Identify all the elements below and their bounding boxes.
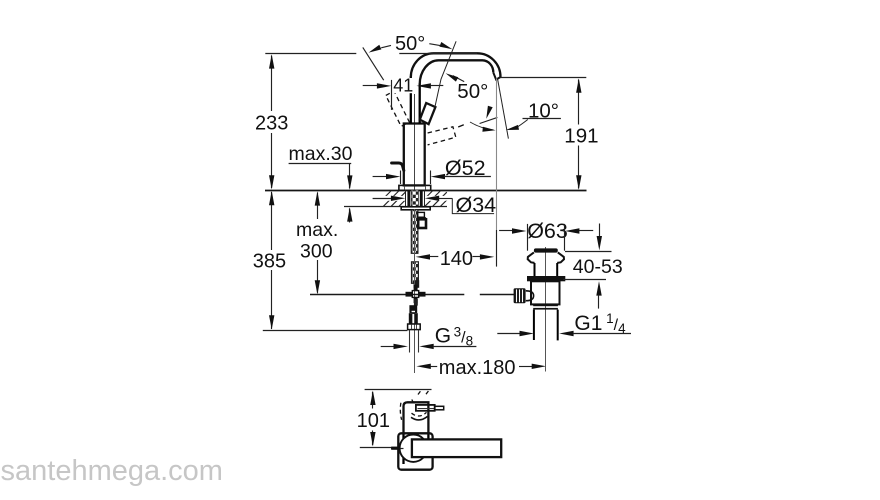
10deg leader and arrow bbox=[506, 120, 528, 131]
140 right extension line (spout axis) bbox=[496, 230, 498, 267]
svg-text:40-53: 40-53 bbox=[573, 256, 623, 278]
svg-text:Ø63: Ø63 bbox=[527, 219, 568, 243]
svg-text:385: 385 bbox=[253, 251, 286, 273]
41 left extension line bbox=[391, 80, 393, 110]
top view: dashed handle arcs bbox=[400, 390, 429, 420]
faucet centreline below deck bbox=[414, 209, 416, 373]
dimension 101 vertical line and arrows bbox=[370, 391, 375, 447]
svg-text:Ø34: Ø34 bbox=[456, 193, 497, 217]
dimension diameter 34 arrows and bent leader bbox=[373, 196, 495, 214]
svg-text:max.: max. bbox=[296, 219, 338, 241]
top view: lever handle bar bbox=[416, 405, 444, 411]
drain centreline bbox=[545, 247, 547, 372]
top view: solid arc across body bbox=[411, 416, 428, 420]
deck line (countertop) y=190.2 bbox=[265, 190, 587, 192]
top view: body outline bbox=[404, 402, 429, 433]
shank clamp bars (black) bbox=[407, 190, 410, 207]
drain rubber washer (black band) bbox=[527, 276, 565, 281]
horizontal pop-up rod bbox=[310, 294, 514, 296]
drain nut bands bbox=[533, 304, 558, 306]
rod stub above connector bbox=[414, 299, 418, 306]
dimension diameter 52 arrows and leader bbox=[373, 174, 491, 179]
svg-text:191: 191 bbox=[564, 124, 598, 147]
braided hose lower segment bbox=[412, 262, 419, 284]
faucet base flange on deck bbox=[399, 185, 431, 190]
svg-text:101: 101 bbox=[357, 410, 390, 432]
drain adjuster knob (knurled) bbox=[514, 288, 534, 303]
dimension G3/8 arrows bbox=[381, 344, 477, 349]
spout tube outer curve and top bbox=[411, 53, 501, 77]
50deg top right leader and arrow bbox=[429, 42, 452, 49]
drain flange cone bbox=[528, 252, 535, 263]
top view: body sides lower bbox=[404, 433, 429, 464]
50-degree label underline / spout top leader bbox=[399, 53, 477, 55]
svg-text:Ø52: Ø52 bbox=[445, 156, 486, 180]
10deg underline bbox=[523, 118, 561, 120]
top view: base plate bbox=[398, 433, 432, 469]
50deg2 leader from text to arrow bbox=[446, 73, 465, 81]
spout riser inner wall right bbox=[419, 84, 421, 124]
extension ticks for diameter 52 bbox=[401, 171, 431, 185]
drain tailpipe bbox=[534, 310, 558, 341]
dimension 40-53 lower part bbox=[563, 280, 606, 309]
top view: pop-up rod bbox=[391, 447, 404, 450]
supply pipe walls bbox=[410, 330, 419, 353]
drain plug cap (black) bbox=[534, 248, 558, 252]
spout axis extension line (gray) bbox=[496, 78, 498, 230]
lever handle (solid, closed position) bbox=[420, 103, 436, 124]
dimension max.300 (hose length below deck) bbox=[315, 191, 320, 294]
water stream line at 10 degrees bbox=[497, 78, 508, 139]
dimension G1-1/4 arrows bbox=[497, 331, 631, 336]
svg-text:50°: 50° bbox=[395, 33, 425, 55]
top view: 101 reference line upper bbox=[365, 389, 432, 391]
spout tube inner curve and top bbox=[420, 60, 494, 84]
threaded rod pattern in shank bbox=[411, 190, 418, 207]
50deg2 tangent line bbox=[480, 117, 498, 123]
svg-text:G1 1/4: G1 1/4 bbox=[574, 311, 626, 336]
spout outlet reference line y=77.9 bbox=[500, 77, 586, 79]
svg-text:50°: 50° bbox=[457, 80, 488, 103]
top view: 101 reference line lower bbox=[360, 447, 399, 449]
faucet body centreline bbox=[414, 94, 416, 190]
dashed handle rotated right bbox=[428, 127, 456, 145]
dashed handle rotated left bbox=[386, 91, 410, 126]
drain upper body bbox=[531, 281, 560, 304]
dimension 140 arrows bbox=[416, 254, 495, 259]
shank outer walls bbox=[406, 190, 425, 207]
dimension 385 vertical line with arrows bbox=[269, 191, 274, 330]
dimension diameter 63 arrows bbox=[499, 228, 593, 233]
50deg2 arc with arrowhead bbox=[470, 122, 496, 132]
drain neck bbox=[535, 263, 558, 276]
top view: spout arm bbox=[412, 439, 501, 457]
dimension 191 vertical line and arrows bbox=[576, 78, 581, 189]
dimension 233 vertical line with arrows (x=271.7) bbox=[269, 54, 274, 189]
supply connector nut bbox=[408, 324, 421, 330]
svg-text:max.30: max.30 bbox=[289, 143, 353, 165]
dimension max.30 (deck thickness) bbox=[289, 163, 353, 222]
50deg2 small down arrow bbox=[486, 106, 492, 119]
svg-text:santehmega.com: santehmega.com bbox=[1, 455, 223, 487]
second hose connector (right) bbox=[417, 212, 426, 228]
dimension 40-53 upper part bbox=[565, 224, 612, 252]
deck hatching (section) bbox=[384, 191, 447, 206]
rod joint at faucet bbox=[414, 285, 418, 291]
dash segment toward swivel arc bbox=[458, 123, 467, 127]
svg-text:140: 140 bbox=[440, 248, 473, 270]
svg-text:G3/8: G3/8 bbox=[435, 325, 473, 349]
pop-up waste knob on body left bbox=[392, 163, 404, 171]
spout riser outer wall left bbox=[410, 76, 412, 123]
top view: swivel circle bbox=[400, 435, 427, 462]
extension line left (handle tilted left axis) bbox=[363, 47, 384, 80]
dimension 41 lines and arrows bbox=[363, 83, 444, 88]
white corridor for dimension line through hatching bbox=[383, 196, 406, 201]
hose end fitting bbox=[414, 280, 420, 288]
extension line right (handle axis through spout) bbox=[435, 41, 456, 107]
50deg top left leader and arrow bbox=[369, 45, 391, 53]
extension lines for diameter 63 bbox=[528, 224, 565, 251]
385 bottom reference line y=330 bbox=[263, 330, 408, 332]
spout outlet face bbox=[493, 72, 500, 79]
braided hose upper segment bbox=[411, 210, 418, 254]
faucet body (cartridge housing) bbox=[404, 124, 425, 186]
svg-text:41: 41 bbox=[393, 75, 413, 95]
washer plate under deck bbox=[401, 207, 430, 210]
supply connector upper bbox=[409, 305, 417, 313]
top extension line at spout top level y=53.2 bbox=[265, 53, 356, 55]
svg-text:233: 233 bbox=[255, 112, 288, 134]
deck bottom line y=206.8 (with extension to the left) bbox=[344, 206, 447, 208]
label 41 bbox=[392, 78, 414, 93]
dimension max.180 arrows bbox=[416, 364, 546, 369]
svg-text:max.180: max.180 bbox=[439, 357, 516, 379]
supply connector body bbox=[409, 313, 418, 324]
svg-text:300: 300 bbox=[300, 241, 333, 263]
